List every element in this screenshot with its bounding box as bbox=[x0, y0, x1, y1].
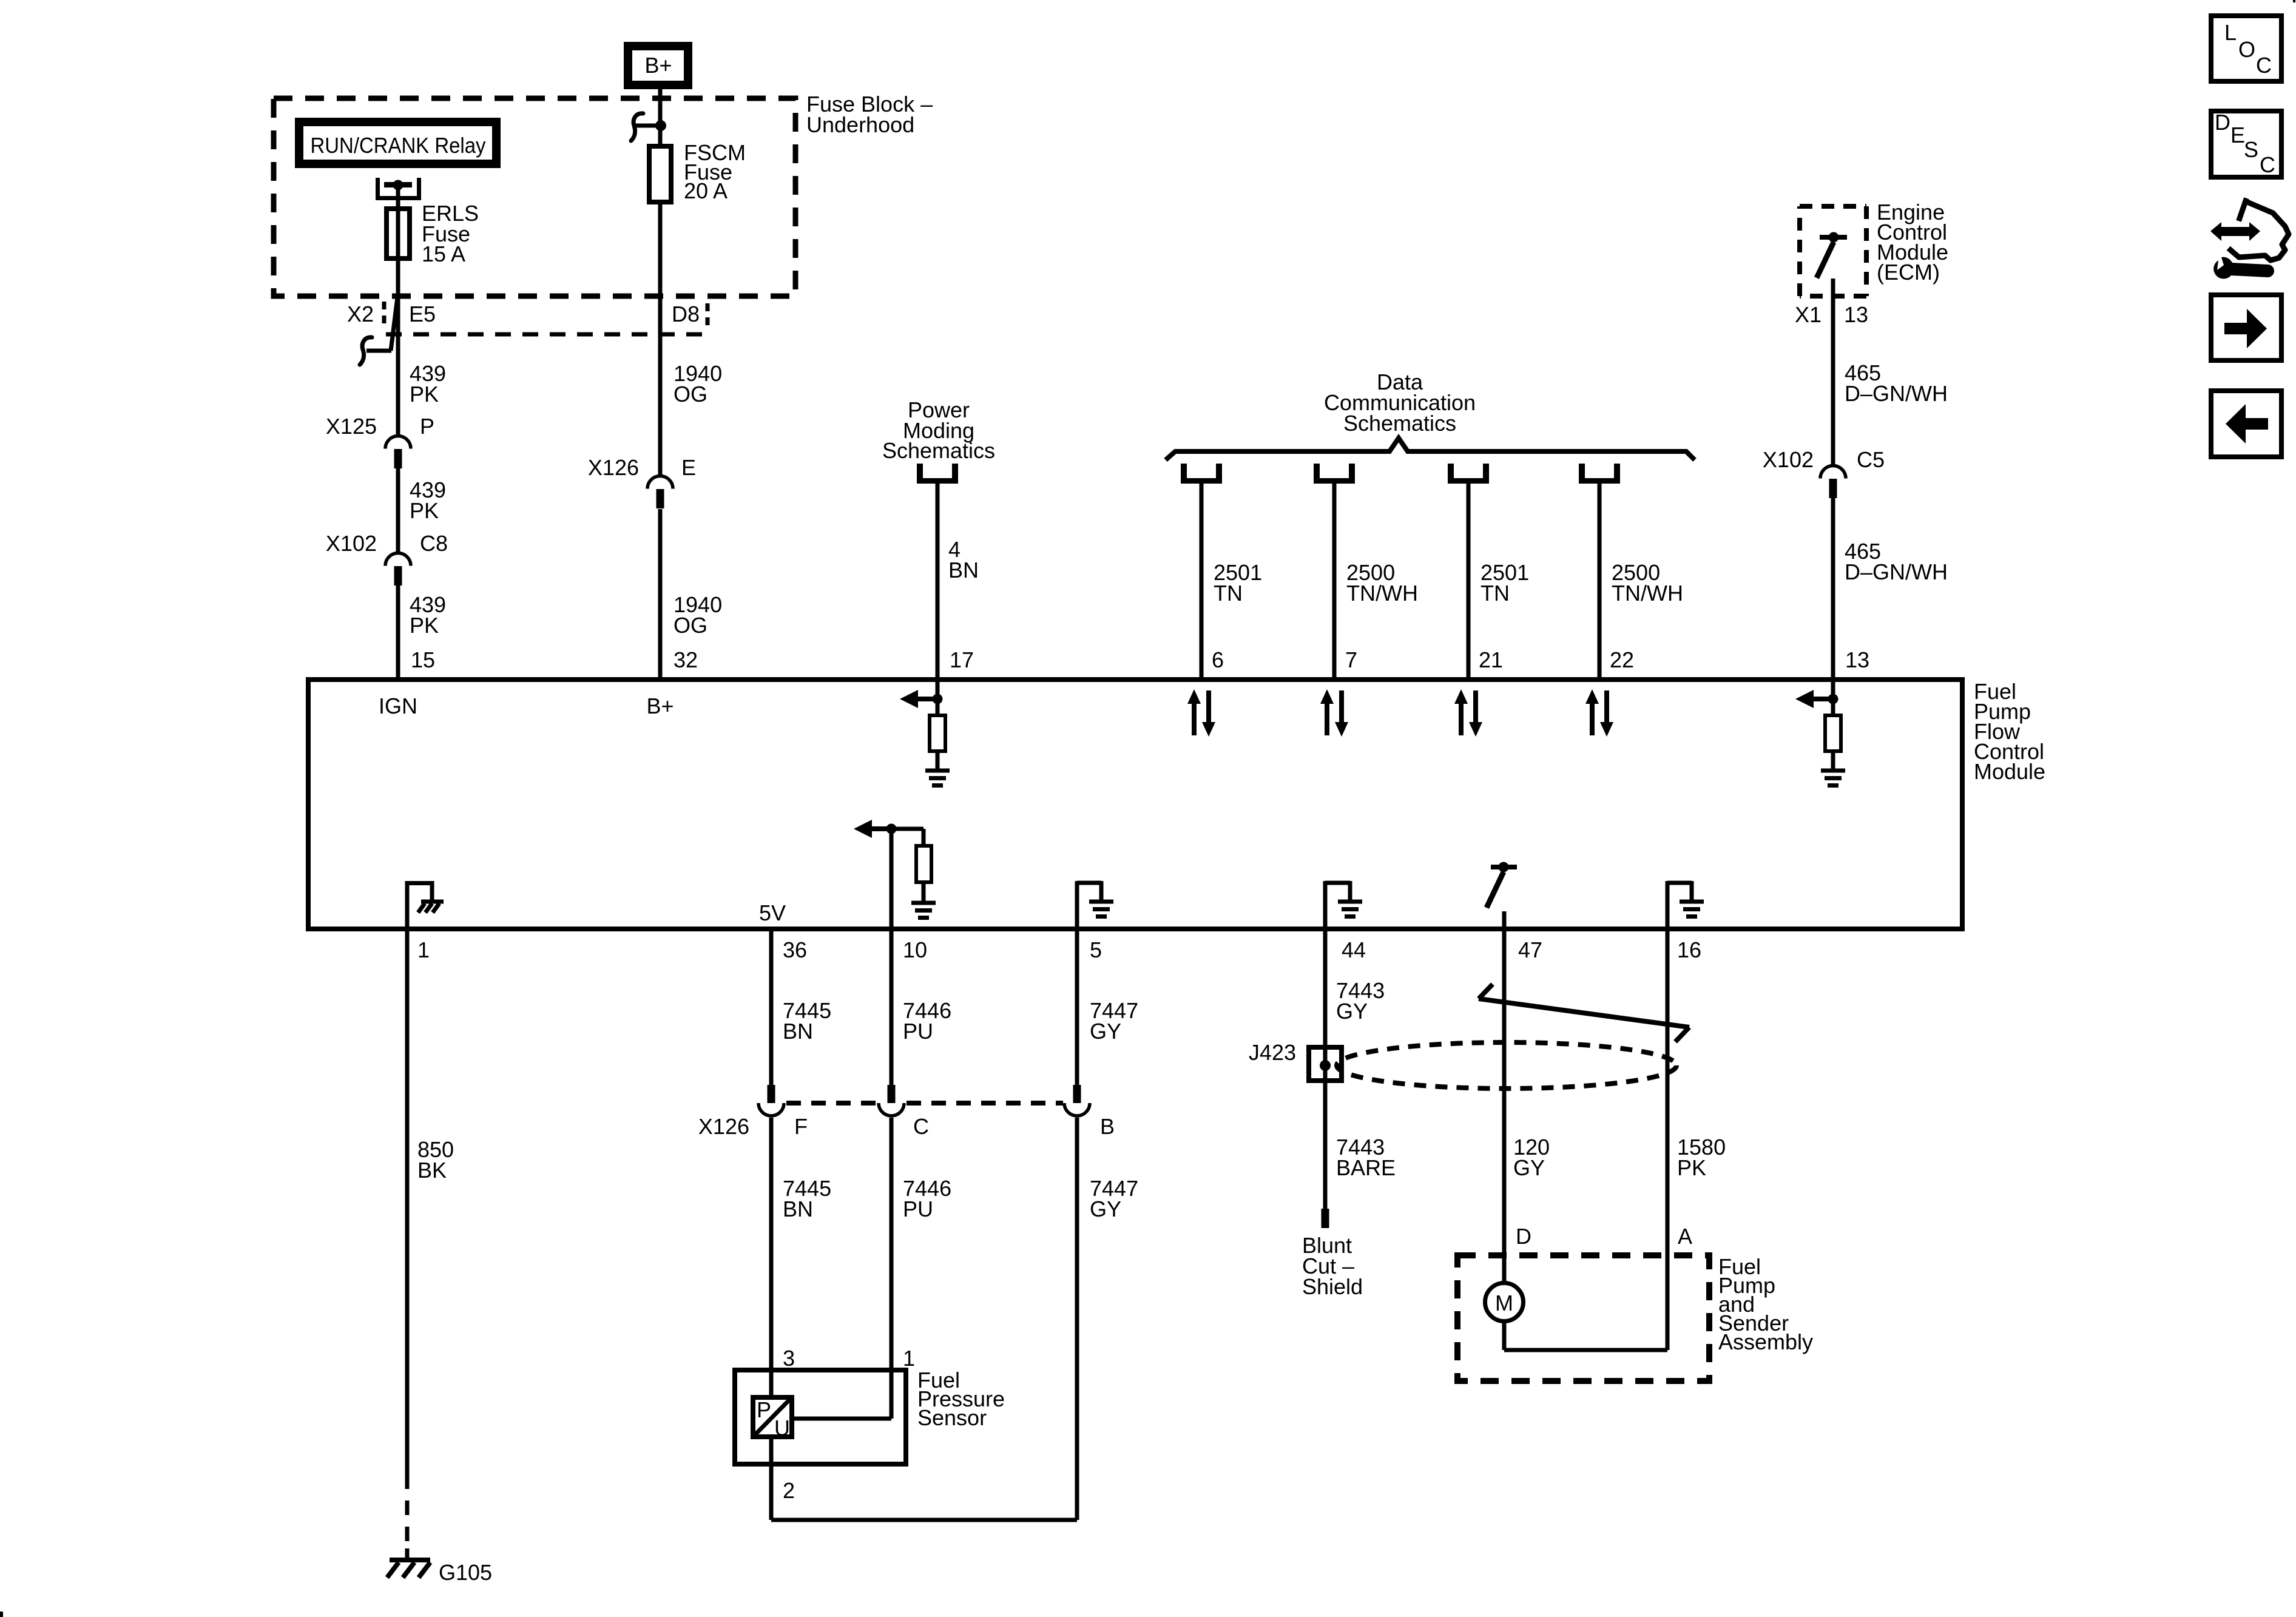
svg-text:32: 32 bbox=[674, 647, 698, 672]
svg-text:Shield: Shield bbox=[1302, 1274, 1363, 1299]
svg-text:Schematics: Schematics bbox=[1343, 411, 1456, 436]
svg-text:A: A bbox=[1678, 1224, 1692, 1249]
svg-text:PU: PU bbox=[903, 1019, 933, 1044]
svg-text:(ECM): (ECM) bbox=[1877, 260, 1940, 285]
svg-text:GY: GY bbox=[1336, 999, 1368, 1024]
svg-text:RUN/CRANK Relay: RUN/CRANK Relay bbox=[311, 133, 486, 158]
svg-text:E: E bbox=[681, 455, 696, 480]
svg-text:F: F bbox=[794, 1114, 808, 1139]
svg-text:Assembly: Assembly bbox=[1718, 1329, 1813, 1354]
svg-text:OG: OG bbox=[674, 613, 707, 638]
svg-text:J423: J423 bbox=[1249, 1040, 1296, 1065]
svg-text:C: C bbox=[2256, 53, 2272, 78]
svg-text:Sensor: Sensor bbox=[917, 1405, 987, 1430]
svg-text:C: C bbox=[2260, 152, 2275, 177]
svg-text:2: 2 bbox=[783, 1478, 795, 1503]
svg-text:21: 21 bbox=[1479, 647, 1503, 672]
svg-text:BK: BK bbox=[417, 1158, 447, 1183]
svg-text:5V: 5V bbox=[759, 900, 786, 925]
svg-text:C5: C5 bbox=[1857, 447, 1885, 472]
svg-text:TN: TN bbox=[1481, 581, 1510, 606]
svg-text:P: P bbox=[757, 1397, 771, 1422]
svg-text:GY: GY bbox=[1090, 1019, 1121, 1044]
svg-text:D8: D8 bbox=[672, 302, 700, 326]
svg-text:PU: PU bbox=[903, 1197, 933, 1221]
svg-text:TN: TN bbox=[1214, 581, 1243, 606]
svg-text:B+: B+ bbox=[644, 53, 672, 78]
svg-text:3: 3 bbox=[783, 1346, 795, 1371]
svg-text:E5: E5 bbox=[409, 302, 436, 326]
svg-text:C8: C8 bbox=[420, 531, 448, 556]
svg-text:6: 6 bbox=[1212, 647, 1224, 672]
svg-text:PK: PK bbox=[410, 613, 439, 638]
svg-text:B+: B+ bbox=[646, 694, 674, 718]
svg-text:5: 5 bbox=[1090, 937, 1102, 962]
svg-text:X2: X2 bbox=[347, 302, 374, 326]
svg-text:GY: GY bbox=[1090, 1197, 1121, 1221]
svg-text:OG: OG bbox=[674, 382, 707, 407]
svg-text:BN: BN bbox=[783, 1197, 813, 1221]
svg-text:22: 22 bbox=[1610, 647, 1634, 672]
svg-text:P: P bbox=[420, 414, 434, 439]
svg-text:E: E bbox=[2230, 123, 2245, 147]
svg-text:7: 7 bbox=[1345, 647, 1357, 672]
svg-text:10: 10 bbox=[903, 937, 927, 962]
svg-text:G105: G105 bbox=[439, 1560, 492, 1585]
svg-text:1: 1 bbox=[903, 1346, 915, 1371]
svg-text:TN/WH: TN/WH bbox=[1612, 581, 1683, 606]
svg-text:Underhood: Underhood bbox=[806, 112, 914, 137]
svg-text:PK: PK bbox=[410, 498, 439, 523]
svg-text:15: 15 bbox=[411, 647, 435, 672]
svg-text:44: 44 bbox=[1342, 937, 1366, 962]
svg-text:17: 17 bbox=[950, 647, 974, 672]
svg-text:47: 47 bbox=[1518, 937, 1542, 962]
svg-text:PK: PK bbox=[410, 382, 439, 407]
svg-text:16: 16 bbox=[1677, 937, 1701, 962]
svg-text:1: 1 bbox=[417, 937, 430, 962]
svg-text:PK: PK bbox=[1677, 1155, 1706, 1180]
svg-text:D: D bbox=[2215, 110, 2230, 135]
svg-text:U: U bbox=[774, 1416, 790, 1440]
svg-text:Schematics: Schematics bbox=[882, 438, 995, 463]
svg-text:S: S bbox=[2244, 137, 2258, 162]
svg-text:B: B bbox=[1100, 1114, 1115, 1139]
svg-text:L: L bbox=[2224, 20, 2237, 45]
svg-text:X125: X125 bbox=[326, 414, 377, 439]
svg-text:M: M bbox=[1495, 1291, 1513, 1315]
svg-text:D: D bbox=[1516, 1224, 1531, 1249]
svg-text:20 A: 20 A bbox=[684, 178, 728, 203]
svg-text:X1: X1 bbox=[1795, 302, 1822, 327]
svg-text:TN/WH: TN/WH bbox=[1346, 581, 1418, 606]
svg-text:D–GN/WH: D–GN/WH bbox=[1845, 381, 1948, 406]
svg-text:36: 36 bbox=[783, 937, 807, 962]
svg-text:C: C bbox=[913, 1114, 929, 1139]
svg-text:BN: BN bbox=[948, 558, 979, 582]
svg-text:IGN: IGN bbox=[379, 694, 417, 718]
svg-text:13: 13 bbox=[1844, 302, 1868, 327]
svg-text:Module: Module bbox=[1974, 759, 2045, 784]
svg-text:15 A: 15 A bbox=[422, 241, 465, 266]
svg-text:X102: X102 bbox=[326, 531, 377, 556]
svg-text:X126: X126 bbox=[588, 455, 639, 480]
svg-text:D–GN/WH: D–GN/WH bbox=[1845, 559, 1948, 584]
svg-text:X126: X126 bbox=[698, 1114, 749, 1139]
svg-text:BN: BN bbox=[783, 1019, 813, 1044]
svg-text:GY: GY bbox=[1513, 1155, 1545, 1180]
svg-text:BARE: BARE bbox=[1336, 1155, 1396, 1180]
svg-text:13: 13 bbox=[1845, 647, 1869, 672]
svg-text:O: O bbox=[2238, 37, 2255, 62]
svg-text:X102: X102 bbox=[1763, 447, 1814, 472]
